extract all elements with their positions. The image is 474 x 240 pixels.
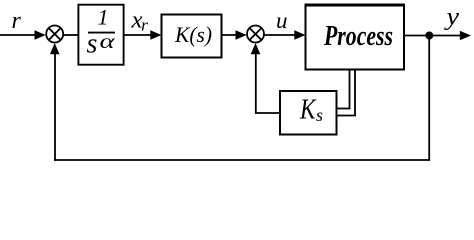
wire outer feedback bottom xyxy=(54,159,430,161)
wire Ks output to S2 xyxy=(256,51,280,113)
wire K(s) to summer S2 xyxy=(222,34,239,36)
wire r input xyxy=(0,34,36,36)
svg-text:s: s xyxy=(316,105,323,125)
arrowhead output y xyxy=(460,31,471,41)
svg-text:s: s xyxy=(87,29,98,60)
svg-text:r: r xyxy=(141,16,148,35)
svg-text:1: 1 xyxy=(98,4,109,29)
svg-text:Process: Process xyxy=(323,21,393,52)
block Ks xyxy=(280,91,337,135)
summing junction S1 xyxy=(46,26,63,43)
wire outer feedback left vertical xyxy=(54,51,56,161)
wire block to K(s) xyxy=(124,34,153,36)
wire Process output to y xyxy=(404,35,462,37)
arrowhead into S2 from below xyxy=(251,43,261,54)
svg-text:r: r xyxy=(12,8,22,34)
arrowhead into K(s) xyxy=(150,30,161,40)
arrowhead into S1 from below xyxy=(50,43,60,54)
arrowhead into summer S2 xyxy=(236,30,247,40)
svg-text:K: K xyxy=(299,94,316,125)
block Process xyxy=(305,5,406,70)
svg-text:K(s): K(s) xyxy=(174,22,212,47)
svg-text:y: y xyxy=(443,4,460,31)
controller block K(s) xyxy=(162,15,222,58)
block 1/s^alpha xyxy=(78,4,123,64)
wire S1 to integrator block xyxy=(64,34,80,36)
wire S2 to Process xyxy=(264,34,296,36)
wire outer feedback right vertical xyxy=(428,36,430,161)
summing junction S2 xyxy=(247,26,264,43)
node x_r label xyxy=(130,7,148,34)
arrowhead into summer S1 xyxy=(35,30,46,40)
wire Process tap 2 to Ks xyxy=(337,70,355,116)
wire Process tap 1 to Ks xyxy=(337,70,350,109)
svg-text:α: α xyxy=(100,31,116,53)
svg-text:u: u xyxy=(276,8,288,33)
junction dot xyxy=(425,32,433,40)
arrowhead into Process xyxy=(294,30,305,40)
